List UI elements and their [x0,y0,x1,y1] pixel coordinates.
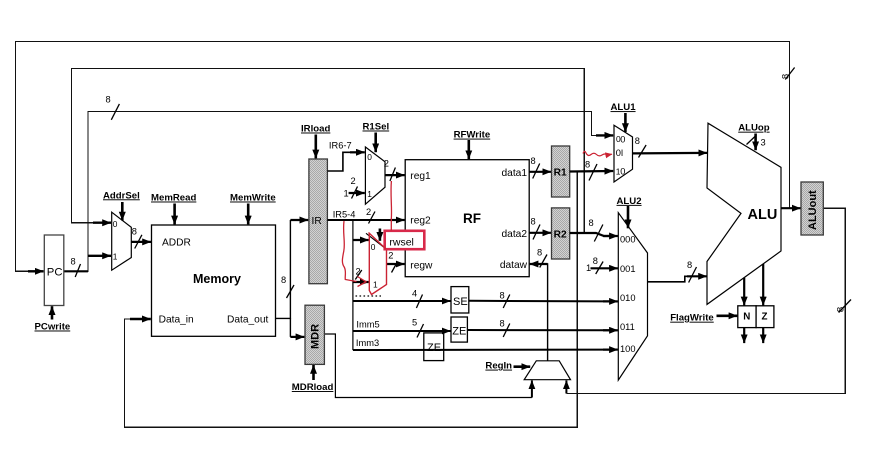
mux ALU1 [614,125,633,182]
svg-text:SE: SE [453,296,468,308]
extender SE [451,287,469,313]
svg-text:RFWrite: RFWrite [454,130,491,141]
svg-text:data1: data1 [502,168,528,179]
control RegIn [485,361,530,372]
control R1Sel [363,122,390,153]
svg-text:IR5-4: IR5-4 [333,209,356,219]
bus width 8 (rotated) on right loop vertical [835,300,851,313]
svg-text:8: 8 [281,275,286,285]
svg-text:8: 8 [593,256,598,266]
wire: RF data1 to R1 [529,156,551,179]
svg-text:RF: RF [463,211,481,226]
wire: IR field vertical tap [352,220,354,350]
svg-text:Data_out: Data_out [227,315,269,326]
svg-text:data2: data2 [502,229,528,240]
wire: PC output to AddrSel mux 1 and around top to ALU1 mux 0 [64,112,613,272]
svg-text:1: 1 [367,189,372,199]
svg-text:R1: R1 [554,168,567,179]
wire: store path R1 output down to Memory Data_in [125,172,578,427]
wire: Memory Data_out to IR and MDR [276,220,309,337]
svg-text:rwsel: rwsel [389,237,414,249]
wire: MDR output to RegIn buffer [324,334,532,398]
svg-text:8: 8 [71,257,76,267]
svg-text:ALUop: ALUop [738,123,770,134]
bus width 8 (rotated) on outer loop right vertical [780,68,794,80]
flag register N [738,306,756,328]
svg-text:8: 8 [585,160,590,170]
bus width 8 on PC output [71,257,81,278]
wire: SE output to ALU2 mux 010 [469,291,618,309]
svg-text:0l: 0l [616,148,623,158]
wire: outer loop ALUout to PC [16,42,790,272]
svg-text:8: 8 [635,136,640,146]
svg-text:ZE: ZE [452,326,466,338]
wire: ALU output to ALUout [781,207,801,209]
annotation red arrow at ALU1 mux [583,151,612,156]
register MDR [305,305,324,364]
svg-text:PC: PC [47,267,63,279]
wire: ZE output to ALU2 mux 011 [467,318,618,337]
svg-text:000: 000 [620,234,636,244]
extender ZE (on Imm3) [424,333,444,361]
svg-text:4: 4 [412,289,417,299]
wire: ALU flags to N Z [744,264,763,305]
register ALUout [801,182,823,235]
control ALU1 [611,102,637,132]
svg-text:ALU1: ALU1 [611,102,637,113]
wire: rwsel mux output to RF regw [387,251,405,273]
mux R1Sel [365,147,385,204]
control ALU2 [617,196,642,228]
wire: tap to rwsel mux input 1 [353,267,369,283]
wire: IR bits 7-6 to R1Sel mux 0 [327,141,364,171]
svg-text:2: 2 [384,159,389,169]
wire: AddrSel mux output to Memory ADDR [131,227,151,249]
svg-text:reg2: reg2 [410,215,431,226]
wire: right loop ALUout down to RegIn buffer [566,208,845,393]
svg-text:3: 3 [761,138,766,148]
svg-text:8: 8 [531,216,536,226]
svg-text:0: 0 [620,134,625,144]
svg-text:IR6-7: IR6-7 [329,141,352,151]
svg-text:AddrSel: AddrSel [103,190,140,201]
wire: ALU1 mux output to ALU input A [633,136,708,158]
svg-text:RegIn: RegIn [485,361,512,372]
register R1 [552,146,570,197]
wire: ALU2 mux output to ALU input B [648,260,708,283]
svg-text:ALU2: ALU2 [617,196,642,207]
wire: second loop R2 output to AddrSel mux 0 [72,69,585,233]
svg-text:R2: R2 [554,230,567,241]
svg-text:100: 100 [620,344,636,354]
svg-text:8: 8 [132,227,137,237]
svg-text:Data_in: Data_in [159,315,194,326]
svg-text:1: 1 [373,280,378,290]
svg-text:2: 2 [388,251,393,261]
control FlagWrite [670,313,737,324]
svg-text:2: 2 [351,176,356,186]
svg-text:011: 011 [620,322,635,332]
control MemWrite [230,193,276,225]
wire: Imm5 to ZE [353,318,451,338]
control AddrSel [103,190,140,220]
svg-text:Imm5: Imm5 [356,320,379,330]
control ALUop [738,123,770,151]
wire: R2 output to ALU2 mux 000 [570,218,618,242]
wire: RegIn buffer output up to RF dataw [530,247,548,360]
svg-text:regw: regw [410,260,433,271]
annotation red wire into rwsel 1 [342,221,366,287]
svg-text:MemRead: MemRead [151,193,196,204]
svg-text:ADDR: ADDR [162,237,191,248]
svg-text:001: 001 [620,264,636,274]
wire: tap to rwsel mux input 0 [353,239,369,241]
svg-text:ZE: ZE [427,342,441,354]
flag register Z [756,306,774,328]
control MDRload [292,365,334,393]
mux AddrSel [112,212,132,270]
svg-text:FlagWrite: FlagWrite [670,313,714,324]
mux rwsel top edge (black) [366,233,386,248]
annotation red box rwsel [385,231,425,249]
svg-text:1: 1 [344,189,349,199]
svg-text:Z: Z [762,312,768,323]
svg-text:0: 0 [371,242,376,252]
svg-text:1: 1 [586,263,591,273]
wire: constant 1 to ALU2 mux 001 [586,256,618,274]
register PC [44,235,64,306]
wire: flag outputs [744,328,763,344]
control MemRead [151,193,196,225]
svg-text:N: N [743,312,750,323]
svg-text:8: 8 [106,95,111,105]
svg-text:8: 8 [531,156,536,166]
svg-text:PCwrite: PCwrite [35,322,71,333]
control rwsel select arrow [379,229,382,241]
block Memory [152,225,276,336]
bus width 8 on Data_out [281,275,294,298]
svg-text:reg1: reg1 [410,171,431,182]
svg-text:R1Sel: R1Sel [363,122,390,133]
extender ZE [451,317,467,342]
wire: RF data2 to R2 [529,216,551,239]
control IRload [301,124,330,159]
block RF [405,160,529,277]
svg-text:0: 0 [620,167,625,177]
buffer RegIn (trapezoid) [524,361,570,380]
svg-text:8: 8 [687,260,692,270]
svg-text:2: 2 [366,207,371,217]
svg-text:Imm3: Imm3 [356,338,379,348]
svg-text:5: 5 [412,318,417,328]
svg-text:8: 8 [500,291,505,301]
svg-text:MDR: MDR [310,324,322,349]
bus width 8 on PC loop top [106,95,120,120]
svg-text:ALU: ALU [748,207,778,223]
mux ALU2 [618,213,647,380]
svg-text:Memory: Memory [193,272,241,286]
wire: R1 output to ALU1 mux 1 [570,160,614,181]
annotation red line from R1Sel output to rwsel box [390,181,393,231]
dotted line IR3-0 [356,295,382,297]
svg-text:ALUout: ALUout [807,190,819,230]
control PCwrite [35,306,71,332]
svg-text:MemWrite: MemWrite [230,193,276,204]
annotation red mux rwsel body [369,233,387,295]
mux rwsel labels [371,242,378,290]
register R2 [552,208,570,259]
wire: IR bits 5-4 to RF reg2 [327,207,404,224]
ALU body [707,123,781,304]
svg-text:MDRload: MDRload [292,382,334,393]
svg-text:IR: IR [312,216,322,227]
svg-text:0: 0 [113,219,118,229]
svg-text:0: 0 [367,152,372,162]
svg-text:IRload: IRload [301,124,330,135]
wire: IR low bits to SE [353,289,451,309]
svg-text:1: 1 [113,252,118,262]
wire: constant 1 to R1Sel mux input 1 [344,176,365,199]
svg-text:8: 8 [589,218,594,228]
svg-text:8: 8 [537,247,542,257]
svg-text:8: 8 [500,318,505,328]
svg-text:010: 010 [620,293,636,303]
wire: R1Sel mux output to RF reg1 [384,159,405,182]
wire: Imm3 to ALU2 mux 100 [353,338,618,350]
control RFWrite [454,130,491,160]
svg-text:dataw: dataw [500,260,528,271]
register IR [309,159,328,284]
